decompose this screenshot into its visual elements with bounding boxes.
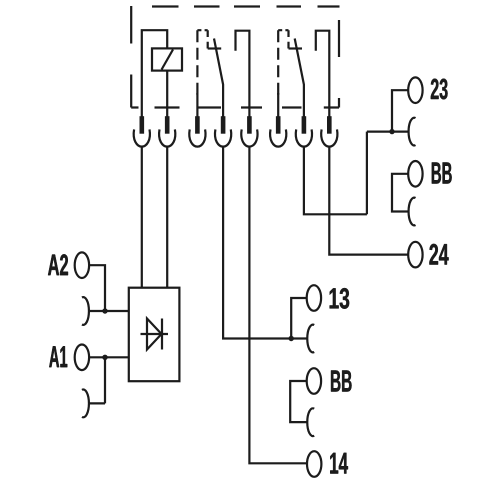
node 24 plug — [408, 242, 422, 268]
terminal pin 5 — [241, 116, 257, 146]
contact K1.1 fixed contact bar — [208, 47, 222, 49]
terminal pin 4 — [215, 116, 231, 146]
label BB right — [432, 162, 452, 183]
wire BB right bridge — [392, 174, 409, 212]
terminal pin 3 — [189, 116, 205, 146]
junction 13 — [289, 336, 294, 341]
contact K1.1 pivot link (dashed corner) — [197, 30, 207, 48]
terminal pin 1 — [134, 116, 150, 146]
label A2 — [48, 254, 68, 275]
junction A2 — [102, 308, 107, 313]
wire pin4 to node 13 — [223, 147, 308, 339]
label BB mid — [331, 370, 351, 391]
contact K1.2 fixed contact bar — [289, 47, 303, 49]
socket A2 — [82, 297, 89, 325]
contact K1.1 NC link from pin3 (dashed) — [196, 30, 198, 95]
junction A1 — [102, 355, 107, 360]
terminal pin 6 — [270, 116, 286, 146]
wire 13 — [291, 298, 306, 339]
wire pin3 stub — [196, 93, 198, 117]
node 14 plug — [307, 451, 321, 477]
label 13 — [330, 288, 350, 309]
contact K1.1 moving arm to pin4 — [214, 39, 223, 118]
node A2 plug — [75, 252, 89, 278]
wire pin5 to node 14 — [249, 147, 306, 464]
suppressor module U1 — [129, 288, 180, 382]
contact K1.2 pivot link (dashed corner) — [278, 30, 288, 48]
wire pin7 to node 23 — [304, 147, 367, 215]
contact K1.1 NO wire to pin5 — [236, 31, 250, 117]
label A1 — [49, 346, 67, 367]
wire pin2 to suppressor module — [166, 147, 168, 288]
relay enclosure K1 (dashed outline) — [131, 6, 339, 108]
node 23 plug — [408, 77, 422, 103]
relay coil K1 — [152, 48, 182, 70]
label 24 — [429, 244, 448, 265]
socket 23 — [409, 118, 416, 146]
socket BB mid — [307, 408, 314, 436]
node BB mid plug — [307, 368, 321, 394]
wire coil bottom to pin2 — [166, 71, 168, 117]
terminal pin 2 — [159, 116, 175, 146]
contact K1.2 NC link from pin6 (dashed) — [277, 30, 279, 95]
socket 13 — [307, 325, 314, 353]
socket A1 — [82, 389, 89, 417]
terminal pin 7 — [296, 116, 312, 146]
wire 23 — [367, 90, 409, 214]
wire BB mid bridge — [290, 381, 308, 422]
wire pin8 to node 24 — [329, 147, 407, 255]
terminal pin 8 — [321, 116, 337, 146]
contact K1.2 NO wire to pin8 — [316, 31, 330, 117]
label 23 — [431, 79, 448, 100]
node A1 plug — [75, 345, 89, 371]
wire A2 to suppressor — [88, 265, 129, 311]
label 14 — [330, 453, 348, 474]
junction 23 — [389, 129, 394, 134]
wire pin1 to coil top — [142, 30, 167, 117]
wire pin1 to suppressor module — [141, 147, 143, 288]
node BB right plug — [408, 161, 422, 187]
wire pin6 stub — [277, 93, 279, 117]
wire A1 to suppressor — [88, 357, 129, 403]
suppressor diode D1 — [141, 319, 169, 350]
contact K1.2 moving arm to pin7 — [295, 39, 304, 118]
node 13 plug — [307, 285, 321, 311]
socket BB right — [409, 198, 416, 226]
